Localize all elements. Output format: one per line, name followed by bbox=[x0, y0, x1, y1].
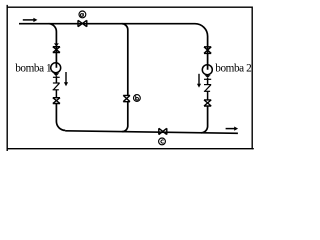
wire: pump2 outlet stem with flanges bbox=[204, 78, 211, 85]
valve right discharge bbox=[204, 100, 211, 106]
node label b bbox=[134, 95, 141, 102]
pump 2 discharge cone bbox=[205, 75, 211, 78]
check valve pump 1 bbox=[53, 83, 60, 97]
node label c bbox=[159, 138, 166, 145]
wire: middle branch elbow from top header bbox=[122, 24, 128, 96]
pipe top header bbox=[19, 23, 195, 25]
wire: right branch lower hook to bottom pipe bbox=[201, 106, 208, 133]
valve left discharge bbox=[53, 98, 60, 104]
pump 1 discharge cone bbox=[53, 73, 59, 76]
flow arrow on left branch bbox=[54, 43, 59, 46]
valve right suction bbox=[204, 47, 211, 54]
check valve pump 2 bbox=[204, 85, 211, 100]
svg-text:bomba 1: bomba 1 bbox=[15, 62, 51, 74]
flow arrow beside pump 2 bbox=[197, 74, 201, 88]
outlet arrow bbox=[226, 127, 239, 131]
wire: left branch lower bbox=[56, 104, 65, 131]
valve c bbox=[159, 128, 167, 134]
valve a bbox=[78, 20, 87, 26]
pipe bottom header bbox=[65, 131, 238, 134]
wire: left branch elbow from top header bbox=[49, 24, 57, 68]
wire: middle branch lower hook to bottom pipe bbox=[122, 102, 128, 132]
svg-text:bomba 2: bomba 2 bbox=[215, 62, 251, 74]
inlet arrow bbox=[23, 18, 38, 22]
pump bomba 1 bbox=[51, 63, 61, 73]
wire: top right elbow down to right branch bbox=[195, 24, 208, 70]
valve left suction bbox=[53, 47, 60, 53]
pump bomba 2 bbox=[202, 65, 212, 75]
node label a bbox=[79, 11, 86, 18]
valve b bbox=[123, 95, 130, 101]
border frame bbox=[7, 5, 254, 151]
flow arrow beside pump 1 bbox=[64, 72, 68, 86]
wire: pump1 outlet stem with flanges bbox=[53, 76, 60, 83]
